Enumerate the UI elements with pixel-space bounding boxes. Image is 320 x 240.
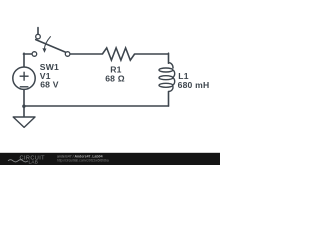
svg-text:LAB: LAB [29, 159, 39, 164]
footer CircuitLab logo [8, 155, 45, 164]
node: junction of source, ground and bottom rail [22, 105, 25, 108]
ground [13, 106, 35, 127]
svg-text:68 Ω: 68 Ω [105, 74, 125, 84]
wire: open stub above switch top throw [37, 28, 39, 34]
resistor R1 (zigzag) [102, 48, 134, 60]
wire: source bottom to ground node [23, 89, 25, 106]
wire: left horizontal from corner to switch common [23, 53, 32, 55]
footer bar [0, 153, 220, 165]
switch SW1 (SPDT, lever and terminals) [32, 34, 70, 56]
wire: top rail from resistor to top-right corner [135, 53, 168, 55]
wire: right vertical from inductor bottom to bottom rail [168, 92, 170, 107]
wire: bottom rail from ground node to right corner [24, 105, 169, 107]
voltage source V1 [13, 67, 35, 89]
wire: left vertical from corner down to source top [23, 53, 25, 67]
svg-text:http://circuitlab.com/c/9f22w5: http://circuitlab.com/c/9f22w5fdfdba [57, 159, 109, 163]
wire: right vertical from corner to inductor top [168, 53, 170, 63]
svg-text:68 V: 68 V [40, 79, 59, 89]
inductor L1 (coil of 3 flat loops with right bumps) [159, 63, 175, 92]
svg-text:680 mH: 680 mH [178, 80, 210, 90]
wire: top rail from switch right terminal to resistor [70, 53, 102, 55]
